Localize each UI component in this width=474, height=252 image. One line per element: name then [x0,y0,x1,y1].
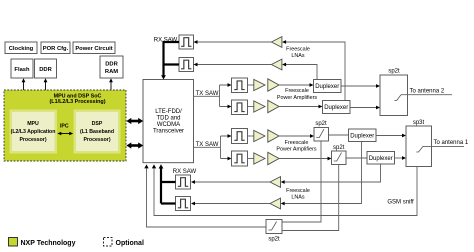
box Flash [11,59,33,78]
wire duplexer2 to LNA1 [282,40,345,100]
amplifier PA driver row2 [248,101,266,112]
legend NXP Technology [9,238,76,248]
svg-text:(L1 Baseband: (L1 Baseband [80,129,114,135]
block MPU and DSP SoC [4,90,126,161]
legend Optional [104,238,144,248]
svg-text:TX SAW: TX SAW [196,142,219,148]
switch sp2t antenna2 [380,69,408,116]
svg-text:Power Amplifiers: Power Amplifiers [277,95,317,101]
amplifier PA row4 [268,152,279,164]
box Power Circuit [73,42,115,54]
box Clocking [5,42,37,54]
svg-text:RAM: RAM [105,69,118,75]
amplifier LNA4 [270,198,281,209]
amplifier LNA1 [271,37,282,48]
svg-text:(L1/L2/L3 Processing): (L1/L2/L3 Processing) [49,99,105,105]
amplifier PA row2 [268,100,279,112]
block MPU [10,110,58,154]
svg-text:Duplexer: Duplexer [315,84,339,90]
wire to antenna 2 [401,89,452,95]
duplexer D2 [323,101,351,114]
svg-text:Clocking: Clocking [9,46,34,52]
wire LNA1 to filter1 [194,40,272,44]
duplexer D4 [367,152,395,165]
block DSP [74,110,121,154]
wire sp2t2 to duplexer4 [346,157,367,159]
svg-text:DSP: DSP [92,121,103,127]
svg-text:RX SAW: RX SAW [173,169,197,175]
filter RX SAW 4 [176,197,191,211]
svg-text:IPC: IPC [60,124,69,130]
svg-text:LNAs: LNAs [291,195,304,201]
amplifier PA driver row1 [248,79,266,90]
svg-text:Freescale: Freescale [285,88,309,94]
svg-text:GSM sniff: GSM sniff [387,200,414,206]
svg-text:To antenna 1: To antenna 1 [434,140,469,146]
filter RX SAW 2 [179,58,194,72]
wire duplexer3 to LNA4 [281,142,362,206]
svg-text:Optional: Optional [116,240,144,247]
filter RX SAW 1 [179,35,194,49]
switch sp2t B GSM [266,220,282,243]
svg-text:POR Cfg.: POR Cfg. [43,46,69,52]
amplifier PA row1 [268,79,279,91]
wire PA row4 to sp2t 2 [279,157,332,161]
amplifier PA driver row3 [248,130,266,141]
wire duplexer2 to sp2t A [350,106,380,110]
wire thick RX2 to transceiver [159,164,176,203]
wire DDR RAM-DSP double arrow [109,78,113,110]
svg-text:Processor): Processor) [19,137,46,143]
wire transceiver to sp2t B [144,164,266,227]
svg-text:Freescale: Freescale [286,47,310,53]
wire SoC-Transceiver bus 2 [126,142,143,148]
svg-text:Flash: Flash [14,67,30,73]
svg-text:Duplexer: Duplexer [350,134,374,140]
wire sp2tB to sp2t1 [282,141,321,222]
box DDR [35,59,57,78]
svg-text:sp3t: sp3t [413,120,425,126]
duplexer D3 [349,129,377,142]
svg-text:TX SAW: TX SAW [196,91,219,97]
svg-text:sp2t: sp2t [333,145,345,151]
amplifier PA driver row4 [248,153,266,164]
wire PA row2 to duplexer2 [279,105,323,109]
wire PA row1 to duplexer1 [279,83,314,87]
label Freescale Power Amplifiers upper [277,88,317,101]
svg-text:Duplexer: Duplexer [324,105,348,111]
wire duplexer4 to sp3t [395,156,407,160]
wire thick RX1 to transceiver [161,42,179,80]
svg-text:MPU: MPU [27,121,39,127]
filter TX SAW 1 [232,78,248,93]
svg-text:sp2t: sp2t [268,237,280,243]
svg-text:Freescale: Freescale [285,140,309,146]
wire GSM sniff sp3t to transceiver [152,164,417,215]
svg-text:sp2t: sp2t [315,121,327,127]
wire duplexer3 to sp3t [376,134,406,138]
wire LNA4 to filter4 [191,202,270,206]
filter TX SAW 3 [232,129,248,144]
svg-text:Duplexer: Duplexer [369,156,393,162]
wire PA row3 to sp2t 1 [279,134,314,138]
filter TX SAW 2 [232,100,248,115]
svg-text:NXP Technology: NXP Technology [21,240,76,247]
svg-text:DDR: DDR [39,67,52,73]
wire DDR-MPU double arrow [44,78,48,110]
svg-text:To antenna 2: To antenna 2 [410,89,445,95]
svg-text:DDR: DDR [105,62,118,68]
box POR Cfg. [41,42,70,54]
wire TX trunk upper [194,83,232,108]
svg-text:(L2/L3 Application: (L2/L3 Application [11,129,56,135]
wire SoC-Transceiver bus 1 [126,118,143,124]
wire TX trunk lower [194,134,232,160]
svg-text:Processor): Processor) [83,137,110,143]
filter TX SAW 4 [232,151,248,166]
svg-text:LNAs: LNAs [291,53,304,59]
wire LNA3 to filter3 [191,180,270,184]
svg-text:sp2t: sp2t [388,69,400,75]
wire sp2tB to sp2t2 [282,165,339,231]
label Freescale LNAs bottom [286,188,310,201]
wire to antenna 1 [423,140,469,146]
wire IPC double arrow [57,124,73,136]
amplifier LNA2 [271,59,282,70]
svg-text:TDD and: TDD and [156,116,180,122]
wire duplexer1 to sp2t A [341,84,380,88]
amplifier PA row3 [268,130,279,142]
svg-text:Transceiver: Transceiver [153,129,184,135]
block LTE-FDD/TDD and WCDMA Transceiver U1 [143,80,194,163]
duplexer D1 [314,80,342,93]
filter RX SAW 3 [176,175,191,189]
wire duplexer1 to LNA2 [282,63,317,80]
box DDR RAM [100,56,123,78]
svg-text:Power Circuit: Power Circuit [75,46,112,52]
svg-text:Power Amplifiers: Power Amplifiers [276,147,316,153]
svg-text:WCDMA: WCDMA [157,122,180,128]
label Freescale Power Amplifiers lower [276,140,316,153]
switch sp3t antenna1 [406,120,432,167]
wire Flash-MPU double arrow [22,78,26,110]
switch sp2t 2 [332,145,347,165]
amplifier LNA3 [270,177,281,188]
wire duplexer4 to LNA3 [281,164,381,184]
wire LNA2 to filter2 [194,63,272,67]
svg-text:Freescale: Freescale [286,188,310,194]
label Freescale LNAs top [286,47,310,60]
wire sp2t1 to duplexer3 [329,134,349,136]
svg-text:LTE-FDD/: LTE-FDD/ [155,109,182,115]
switch sp2t 1 [314,121,329,141]
